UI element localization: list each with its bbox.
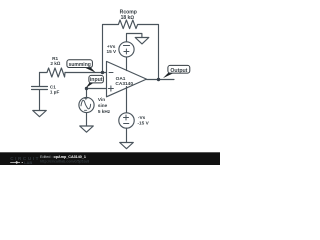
wire op-amp output xyxy=(147,79,175,81)
svg-text:Edited : opAmp_CA3140_1: Edited : opAmp_CA3140_1 xyxy=(40,155,86,159)
wire R1 right to op-amp inverting input xyxy=(65,72,107,74)
voltage source +Vs circle xyxy=(119,42,134,57)
+Vs plus mark xyxy=(124,49,129,54)
svg-text:5 kHz: 5 kHz xyxy=(98,109,111,114)
+Vs minus mark xyxy=(123,45,129,47)
junction summing node xyxy=(101,71,104,74)
wire Vin to ground xyxy=(86,113,88,126)
svg-text:LAB: LAB xyxy=(24,160,32,165)
svg-text:Vin: Vin xyxy=(98,97,105,102)
svg-text:input: input xyxy=(90,77,103,83)
Vin minus mark xyxy=(84,109,86,111)
net flag Output box xyxy=(168,65,190,73)
ground (C1) xyxy=(33,111,47,117)
wire op-amp V+ pin xyxy=(126,57,128,71)
Vin plus mark xyxy=(85,97,87,99)
svg-text:sine: sine xyxy=(98,103,108,108)
svg-text:-15 V: -15 V xyxy=(138,120,150,125)
svg-text:CA3140: CA3140 xyxy=(115,81,133,87)
wire op-amp noninverting input xyxy=(87,88,107,90)
Vin sine squiggle xyxy=(81,100,91,109)
svg-text:2 kΩ: 2 kΩ xyxy=(50,61,61,66)
ground (+Vs) xyxy=(135,38,149,44)
wire +Vs to ground xyxy=(127,34,142,42)
svg-text:15 V: 15 V xyxy=(107,49,118,54)
ground (Vin) xyxy=(80,126,94,132)
footer bar xyxy=(0,152,220,165)
capacitor C1 xyxy=(32,87,48,111)
net flag summing box xyxy=(67,60,93,68)
wire op-amp V- pin xyxy=(126,87,128,113)
-Vs minus mark xyxy=(124,123,129,125)
op-amp minus input glyph xyxy=(109,72,113,74)
net flag Output tail xyxy=(163,73,174,78)
resistor Rcomp with feedback wires xyxy=(103,20,159,80)
voltage source -Vs circle xyxy=(119,113,134,128)
resistor R1 xyxy=(40,68,66,77)
wire node A down to C1 xyxy=(39,73,41,87)
-Vs plus mark xyxy=(124,115,129,120)
source Vin circle xyxy=(79,97,94,112)
op-amp OA1 triangle xyxy=(107,61,147,96)
svg-text:1 µF: 1 µF xyxy=(50,89,60,94)
junction input node xyxy=(85,87,88,90)
svg-text:Output: Output xyxy=(170,68,187,74)
svg-text:summing: summing xyxy=(69,62,91,68)
net flag summing tail xyxy=(84,67,96,73)
net flag input box xyxy=(89,75,104,83)
svg-text:http://circuitlab.com/c/5p5zu8: http://circuitlab.com/c/5p5zu8 xyxy=(40,159,89,163)
ground (-Vs) xyxy=(120,143,134,149)
wire -Vs to ground xyxy=(126,128,128,142)
wire input node down to Vin xyxy=(86,89,88,98)
op-amp plus input glyph xyxy=(108,86,113,91)
net flag input tail xyxy=(86,83,94,89)
svg-text:18 kΩ: 18 kΩ xyxy=(121,15,135,21)
junction output node xyxy=(157,78,160,81)
